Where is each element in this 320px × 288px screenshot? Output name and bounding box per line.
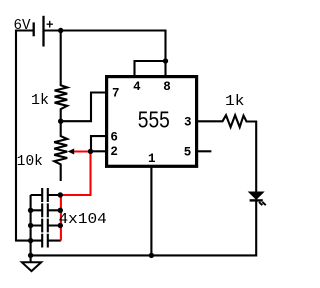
svg-text:4: 4 — [133, 80, 141, 94]
svg-text:7: 7 — [112, 86, 120, 100]
svg-text:1k: 1k — [31, 92, 49, 109]
svg-text:6V: 6V — [14, 17, 31, 34]
svg-text:4x104: 4x104 — [59, 211, 107, 228]
svg-text:6: 6 — [110, 130, 118, 144]
svg-text:5: 5 — [184, 146, 192, 160]
svg-text:+: + — [46, 19, 54, 33]
svg-text:2: 2 — [110, 145, 118, 159]
svg-text:10k: 10k — [17, 153, 43, 170]
svg-text:555: 555 — [138, 107, 170, 133]
svg-text:1: 1 — [148, 152, 156, 166]
svg-text:3: 3 — [184, 115, 192, 129]
svg-text:1k: 1k — [225, 93, 245, 110]
svg-text:8: 8 — [163, 80, 171, 94]
